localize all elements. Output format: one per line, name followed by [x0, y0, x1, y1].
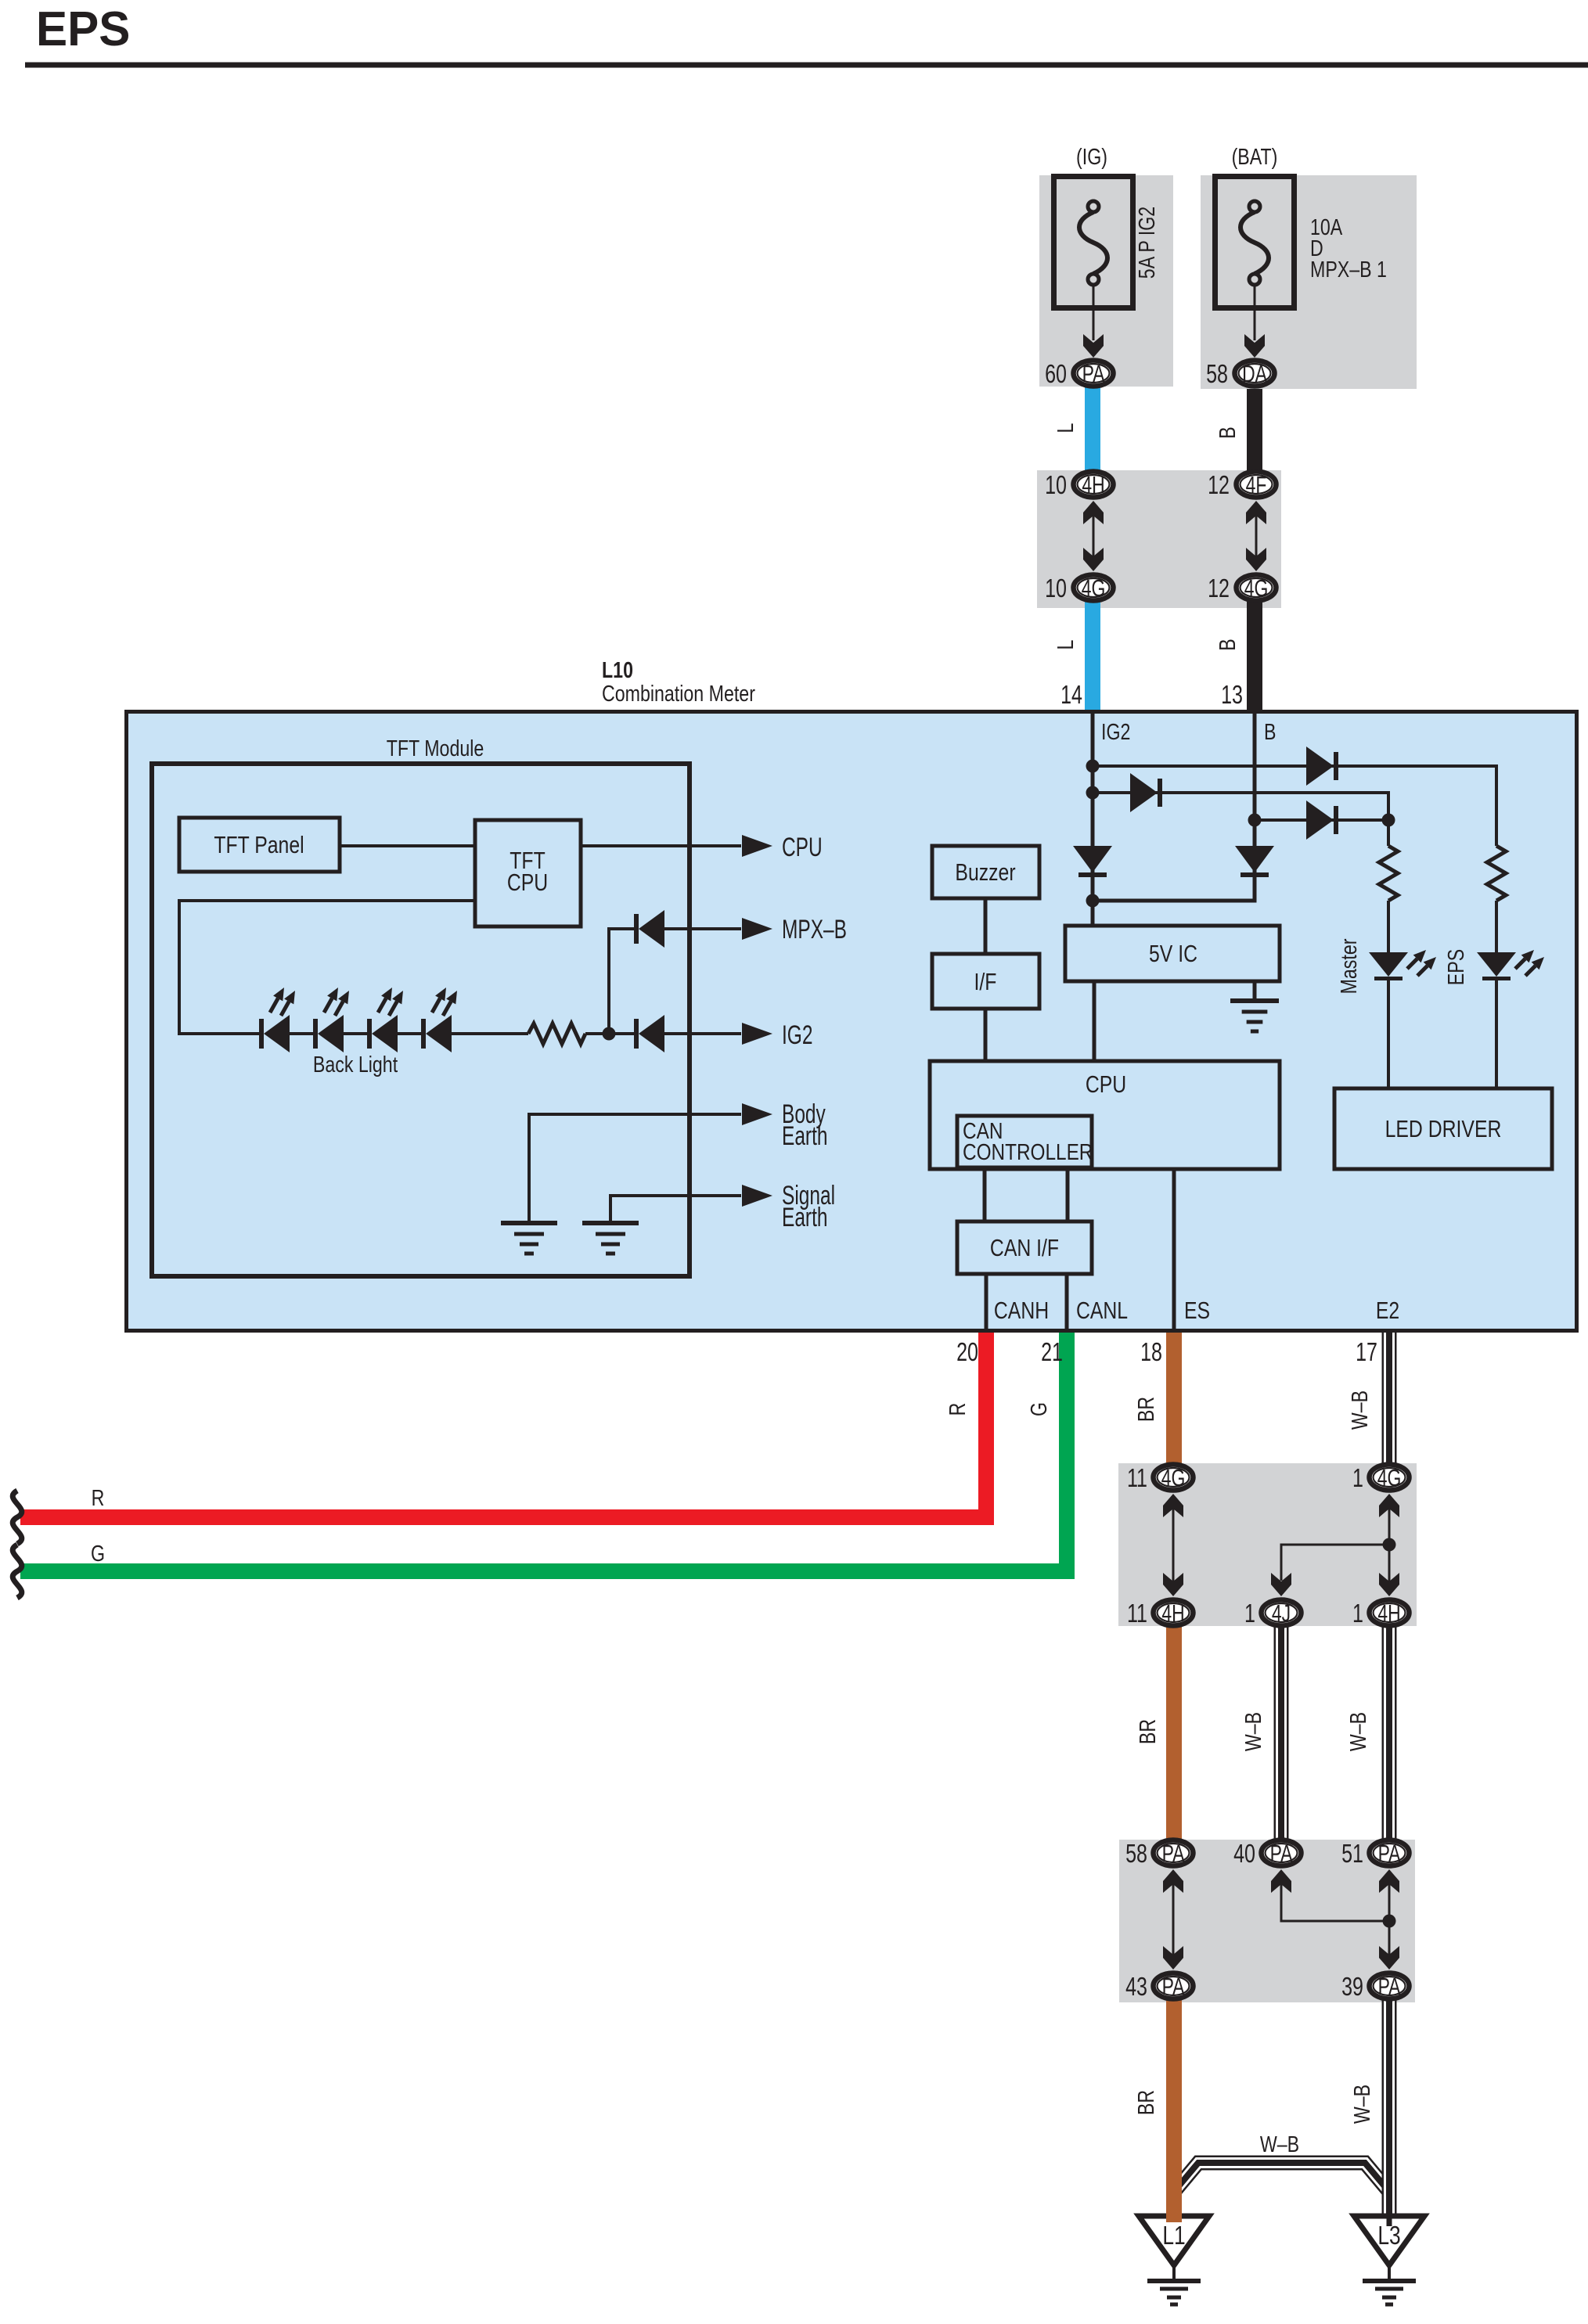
diode to IG2	[634, 1015, 664, 1052]
wire row1 IG2 to EPS resistor	[1093, 766, 1496, 846]
svg-text:18: 18	[1140, 1338, 1162, 1367]
label BR wire color	[1132, 1397, 1158, 1422]
label CAN CONTROLLER	[963, 1118, 1093, 1164]
svg-text:W–B: W–B	[1349, 2085, 1374, 2124]
svg-text:PA: PA	[1270, 1840, 1294, 1867]
svg-text:58: 58	[1206, 360, 1228, 389]
label Signal Earth	[782, 1181, 835, 1232]
wire node to MPX-B diode	[609, 929, 634, 1034]
backlight LED 3	[367, 988, 403, 1052]
svg-text:1: 1	[1244, 1599, 1255, 1628]
wire ES CPU to box edge	[1172, 1169, 1176, 1330]
pin 1	[1244, 1599, 1255, 1628]
label CANH terminal	[994, 1297, 1049, 1323]
fuse 10A D MPX-B 1	[1215, 177, 1295, 308]
label W-B jumper	[1260, 2131, 1299, 2157]
connector panel 4H/4F-4G background	[1037, 470, 1281, 608]
svg-text:4G: 4G	[1161, 1464, 1186, 1491]
svg-text:W–B: W–B	[1240, 1712, 1266, 1751]
connector 11 4G	[1154, 1464, 1194, 1491]
label TFT Panel	[214, 831, 304, 858]
connector panel 4G-4H/4J background	[1118, 1463, 1417, 1626]
connector 39 PA	[1370, 1973, 1410, 2000]
connector 51 PA	[1370, 1840, 1410, 1867]
svg-text:51: 51	[1341, 1840, 1363, 1869]
buzzer box	[932, 846, 1039, 898]
wire BR brown ES from pin 18 to connector 4G	[1166, 1330, 1182, 1467]
svg-text:4F: 4F	[1246, 471, 1267, 498]
wire G green CANL from pin 21	[20, 1330, 1067, 1571]
label 5A P IG2	[1133, 207, 1159, 279]
5V IC box	[1065, 926, 1280, 981]
diode row2	[1130, 773, 1162, 812]
svg-text:Master: Master	[1335, 938, 1361, 994]
svg-text:21: 21	[1041, 1338, 1063, 1367]
label Body Earth	[782, 1099, 827, 1151]
svg-text:R: R	[92, 1484, 105, 1510]
wire row2 IG2 to master junction	[1093, 793, 1388, 846]
wire B black from connector 4G to combination meter pin 13	[1247, 595, 1262, 710]
LED EPS	[1477, 950, 1544, 980]
title EPS	[36, 2, 130, 56]
pin 58	[1125, 1840, 1147, 1869]
label 5V IC	[1149, 940, 1197, 966]
svg-text:L: L	[1052, 423, 1078, 434]
svg-text:MPX–B 1: MPX–B 1	[1310, 256, 1387, 282]
svg-text:4G: 4G	[1082, 574, 1106, 602]
pin 21	[1041, 1338, 1063, 1367]
svg-text:BR: BR	[1132, 2090, 1158, 2115]
connector 10 4G	[1074, 574, 1114, 602]
svg-text:MPX–B: MPX–B	[782, 915, 847, 944]
arrow between connectors 4G and 4H	[1163, 1494, 1183, 1596]
label Master	[1335, 938, 1361, 994]
pin 12	[1208, 471, 1230, 500]
diode to MPX-B	[634, 910, 664, 948]
wire resistor to node	[585, 1032, 634, 1035]
wire W-B from connector PA 39 to ground L3	[1382, 1995, 1397, 2214]
label L wire color	[1052, 423, 1078, 434]
arrow and jumper PA40	[1271, 1869, 1389, 1921]
pin 11	[1127, 1464, 1147, 1493]
label (BAT)	[1232, 143, 1278, 169]
svg-text:4H: 4H	[1377, 1599, 1400, 1627]
label Back Light	[313, 1051, 398, 1077]
connector 43 PA	[1154, 1973, 1194, 2000]
earth L1	[1147, 2265, 1201, 2304]
diode IG2 column	[1073, 846, 1112, 877]
label CPU block	[1086, 1070, 1126, 1097]
label G horizontal	[91, 1540, 105, 1566]
wire	[344, 1032, 367, 1035]
TFT module box	[152, 764, 690, 1276]
CPU box	[930, 1061, 1280, 1169]
wire resistor to master LED	[1387, 901, 1390, 952]
connector 40 PA	[1262, 1840, 1302, 1867]
svg-text:W–B: W–B	[1345, 1712, 1370, 1751]
svg-text:13: 13	[1221, 681, 1243, 710]
label L10	[602, 657, 633, 682]
label W-B wire color	[1346, 1390, 1372, 1430]
svg-text:BR: BR	[1134, 1719, 1160, 1744]
fuse panel (IG) background	[1039, 175, 1173, 387]
connector 1 4G	[1370, 1464, 1410, 1491]
label G wire color	[1025, 1402, 1051, 1416]
pin 43	[1125, 1973, 1147, 2002]
resistor backlight	[528, 1023, 585, 1044]
wire signal earth	[610, 1185, 772, 1221]
svg-text:4H: 4H	[1082, 471, 1104, 498]
connector 1 4J	[1262, 1599, 1302, 1627]
svg-text:4J: 4J	[1272, 1599, 1291, 1627]
svg-text:L10: L10	[602, 657, 633, 682]
wire	[290, 1032, 313, 1035]
label (IG)	[1076, 143, 1107, 169]
wire W-B from meter pin 17 to connector 4G	[1382, 1330, 1397, 1467]
I/F box	[932, 954, 1039, 1009]
pin 12	[1208, 574, 1230, 603]
wire R red CANH from pin 20	[20, 1330, 986, 1517]
svg-text:IG2: IG2	[1101, 718, 1130, 744]
ground signal earth	[582, 1223, 639, 1254]
svg-text:43: 43	[1125, 1973, 1147, 2002]
wire W-B from connector 4H to connector PA 51	[1382, 1624, 1397, 1843]
connector 1 4H	[1370, 1599, 1410, 1627]
svg-text:39: 39	[1341, 1973, 1363, 2002]
label L wire color	[1052, 640, 1078, 650]
node B row3	[1248, 814, 1262, 827]
svg-text:17: 17	[1356, 1338, 1377, 1367]
svg-text:B: B	[1264, 718, 1276, 744]
svg-text:EPS: EPS	[1442, 949, 1468, 985]
svg-text:EPS: EPS	[36, 2, 130, 56]
wire TFT CPU to backlight chain	[179, 901, 475, 1034]
ground 5V IC	[1230, 1001, 1279, 1031]
svg-text:12: 12	[1208, 471, 1230, 500]
wire IG2 column	[1091, 710, 1095, 926]
title rule	[25, 63, 1588, 68]
svg-text:5V IC: 5V IC	[1149, 940, 1197, 966]
arrow from fuse BAT to connector DA	[1244, 285, 1265, 358]
svg-text:W–B: W–B	[1260, 2131, 1299, 2157]
LED master	[1369, 950, 1436, 980]
svg-text:PA: PA	[1378, 1973, 1402, 2000]
pin 39	[1341, 1973, 1363, 2002]
svg-text:CANH: CANH	[994, 1297, 1049, 1323]
label CANL terminal	[1076, 1297, 1128, 1323]
label MPX-B	[782, 915, 847, 944]
svg-text:L: L	[1052, 640, 1078, 650]
TFT Panel box	[179, 818, 340, 872]
svg-text:CONTROLLER: CONTROLLER	[963, 1139, 1093, 1164]
svg-text:TFT Panel: TFT Panel	[214, 831, 304, 858]
label EPS	[1442, 949, 1468, 985]
connector 58 DA	[1235, 360, 1275, 387]
svg-text:4G: 4G	[1244, 574, 1269, 602]
label BR wire color	[1134, 1719, 1160, 1744]
label W-B wire color	[1349, 2085, 1374, 2124]
svg-text:20: 20	[956, 1338, 978, 1367]
wire B column	[1093, 710, 1255, 901]
connector 11 4H	[1154, 1599, 1194, 1627]
label TFT CPU	[507, 847, 548, 895]
pin 10	[1045, 471, 1067, 500]
wire BR brown from connector 4H to connector PA 58	[1166, 1624, 1182, 1843]
svg-text:1: 1	[1352, 1599, 1363, 1628]
pin 10	[1045, 574, 1067, 603]
node IG2 row2	[1086, 786, 1100, 800]
connector 60 PA	[1074, 360, 1114, 387]
arrow between connectors PA51 and PA39	[1379, 1869, 1399, 1970]
pin 14	[1060, 681, 1082, 710]
svg-text:14: 14	[1060, 681, 1082, 710]
label LED DRIVER	[1385, 1115, 1502, 1142]
fuse 5A P IG2	[1054, 177, 1133, 308]
svg-text:PA: PA	[1162, 1973, 1186, 2000]
svg-text:10: 10	[1045, 471, 1067, 500]
wire	[398, 1032, 421, 1035]
wire W-B core into L3	[1387, 2211, 1392, 2226]
svg-text:E2: E2	[1376, 1297, 1399, 1323]
svg-text:Earth: Earth	[782, 1121, 827, 1151]
connector 58 PA	[1154, 1840, 1194, 1867]
svg-text:CPU: CPU	[507, 869, 548, 895]
node IG2 row1	[1086, 760, 1100, 773]
svg-text:4H: 4H	[1161, 1599, 1184, 1627]
pin 60	[1045, 360, 1067, 389]
TFT CPU box	[475, 820, 581, 926]
node backlight junction	[603, 1027, 616, 1041]
svg-text:DA: DA	[1242, 360, 1268, 387]
wire CANH to box edge	[985, 1274, 988, 1330]
wire L blue from connector 4G to combination meter pin 14	[1085, 595, 1100, 710]
wire jumper to 4J	[1271, 1545, 1389, 1596]
label Buzzer	[955, 858, 1015, 885]
diode B column	[1235, 846, 1274, 877]
wire body earth	[529, 1103, 772, 1221]
node IG2 5V junction	[1086, 894, 1100, 908]
label BR wire color	[1132, 2090, 1158, 2115]
connector 12 4F	[1237, 471, 1277, 498]
ground body earth	[501, 1223, 557, 1254]
arrow between connectors PA58 and PA43	[1163, 1869, 1183, 1970]
label W-B wire color	[1240, 1712, 1266, 1751]
earth L3	[1363, 2265, 1416, 2304]
wire 5V IC ground	[1253, 981, 1257, 1001]
pin 58	[1206, 360, 1228, 389]
svg-text:CPU: CPU	[1086, 1070, 1126, 1097]
svg-text:ES: ES	[1184, 1297, 1210, 1323]
svg-text:40: 40	[1233, 1840, 1255, 1869]
svg-text:PA: PA	[1162, 1840, 1186, 1867]
wire 5V IC to CPU	[1093, 981, 1096, 1061]
label L1	[1162, 2221, 1185, 2250]
wire TFT CPU to CPU arrow	[581, 835, 772, 857]
pin 1	[1352, 1464, 1363, 1493]
svg-text:R: R	[944, 1403, 970, 1416]
wire master LED to LED driver	[1387, 980, 1390, 1088]
pin 18	[1140, 1338, 1162, 1367]
wire I/F to CPU	[984, 1009, 988, 1061]
svg-text:CAN I/F: CAN I/F	[990, 1234, 1059, 1261]
svg-text:Combination Meter: Combination Meter	[602, 680, 755, 706]
wires CAN controller to CAN I/F	[985, 1167, 1068, 1221]
label B terminal	[1264, 718, 1276, 744]
arrow from fuse IG to connector PA	[1083, 285, 1104, 358]
pin 40	[1233, 1840, 1255, 1869]
pin 13	[1221, 681, 1243, 710]
backlight LED 1	[259, 988, 295, 1052]
wire BR into L1	[1166, 2210, 1182, 2222]
svg-text:12: 12	[1208, 574, 1230, 603]
svg-text:B: B	[1214, 639, 1240, 650]
backlight LED 2	[313, 988, 349, 1052]
wire TFT Panel to TFT CPU	[340, 844, 475, 847]
arrow between connectors 4F and 4G	[1246, 501, 1266, 571]
svg-text:11: 11	[1127, 1464, 1147, 1493]
svg-text:PA: PA	[1082, 360, 1106, 387]
svg-text:PA: PA	[1378, 1840, 1402, 1867]
ground L3	[1354, 2216, 1424, 2265]
label ES terminal	[1184, 1297, 1210, 1323]
svg-text:I/F: I/F	[974, 968, 997, 995]
label Combination Meter	[602, 680, 755, 706]
node master junction	[1382, 814, 1395, 827]
resistor EPS	[1487, 846, 1506, 901]
svg-text:Buzzer: Buzzer	[955, 858, 1015, 885]
arrow and jumper 4G to 4H/4J	[1379, 1494, 1399, 1596]
wire diode to IG2 arrow	[664, 1023, 772, 1045]
node jumper	[1383, 1538, 1396, 1552]
svg-text:BR: BR	[1132, 1397, 1158, 1422]
label B wire color	[1214, 426, 1240, 438]
svg-text:5A P IG2: 5A P IG2	[1133, 207, 1159, 279]
label L3	[1377, 2221, 1400, 2250]
svg-text:TFT Module: TFT Module	[387, 735, 484, 761]
svg-text:10: 10	[1045, 574, 1067, 603]
pin 51	[1341, 1840, 1363, 1869]
fuse panel (BAT) background	[1201, 175, 1417, 389]
pin 17	[1356, 1338, 1377, 1367]
arrow between connectors 4H and 4G	[1083, 501, 1104, 571]
wire EPS LED to LED driver	[1495, 980, 1498, 1088]
label R horizontal	[92, 1484, 105, 1510]
svg-text:4G: 4G	[1377, 1464, 1402, 1491]
resistor master	[1379, 846, 1398, 901]
CAN I/F box	[957, 1221, 1092, 1274]
pin 20	[956, 1338, 978, 1367]
svg-text:G: G	[1025, 1402, 1051, 1416]
svg-text:(IG): (IG)	[1076, 143, 1107, 169]
label I/F	[974, 968, 997, 995]
diode row1	[1306, 746, 1338, 786]
break symbol on wire G	[13, 1545, 22, 1598]
label 10A D MPX-B 1	[1310, 214, 1387, 282]
wire LED chain to resistor	[452, 1032, 528, 1035]
svg-text:Earth: Earth	[782, 1203, 827, 1232]
svg-text:LED DRIVER: LED DRIVER	[1385, 1115, 1502, 1142]
label E2 terminal	[1376, 1297, 1399, 1323]
wire CANL to box edge	[1065, 1274, 1069, 1330]
wire B black from fuse DA to connector 4F	[1247, 389, 1262, 477]
svg-text:11: 11	[1127, 1599, 1147, 1628]
wire W-B from connector 4J to connector PA 40	[1274, 1624, 1289, 1843]
svg-text:CPU: CPU	[782, 833, 823, 862]
label CAN I/F	[990, 1234, 1059, 1261]
wire diode to MPX-B arrow	[664, 918, 772, 940]
svg-text:L1: L1	[1162, 2221, 1185, 2250]
svg-text:IG2: IG2	[782, 1020, 812, 1050]
svg-text:1: 1	[1352, 1464, 1363, 1493]
svg-text:W–B: W–B	[1346, 1390, 1372, 1430]
svg-text:60: 60	[1045, 360, 1067, 389]
wire BR brown from connector PA 43 to ground L1	[1166, 1995, 1182, 2221]
label TFT Module	[387, 735, 484, 761]
svg-text:58: 58	[1125, 1840, 1147, 1869]
CAN controller box	[957, 1116, 1092, 1167]
wire W-B ground jumper L1 to L3	[1174, 2163, 1389, 2192]
svg-text:B: B	[1214, 426, 1240, 438]
node jumper PA	[1383, 1915, 1396, 1928]
svg-text:CANL: CANL	[1076, 1297, 1128, 1323]
diode row3	[1306, 800, 1338, 840]
label IG2 terminal	[1101, 718, 1130, 744]
pin 11	[1127, 1599, 1147, 1628]
connector panel PA background	[1119, 1840, 1415, 2002]
ground L1	[1139, 2216, 1209, 2265]
connector 12 4G	[1237, 574, 1277, 602]
backlight LED 4	[421, 988, 457, 1052]
label W-B wire color	[1345, 1712, 1370, 1751]
label R wire color	[944, 1403, 970, 1416]
svg-text:G: G	[91, 1540, 105, 1566]
connector 10 4H	[1074, 471, 1114, 498]
LED driver box	[1334, 1088, 1552, 1169]
svg-text:(BAT): (BAT)	[1232, 143, 1278, 169]
combination meter box L10	[127, 712, 1577, 1331]
wire buzzer to I/F	[984, 898, 988, 954]
wire L blue from fuse to connector 4H	[1085, 385, 1100, 477]
svg-text:Back Light: Back Light	[313, 1051, 398, 1077]
wire row3 B to master junction	[1255, 818, 1388, 822]
label IG2	[782, 1020, 812, 1050]
label CPU	[782, 833, 823, 862]
pin 1	[1352, 1599, 1363, 1628]
label B wire color	[1214, 639, 1240, 650]
wire resistor to EPS LED	[1495, 901, 1498, 952]
break symbol on wire R	[13, 1491, 22, 1544]
